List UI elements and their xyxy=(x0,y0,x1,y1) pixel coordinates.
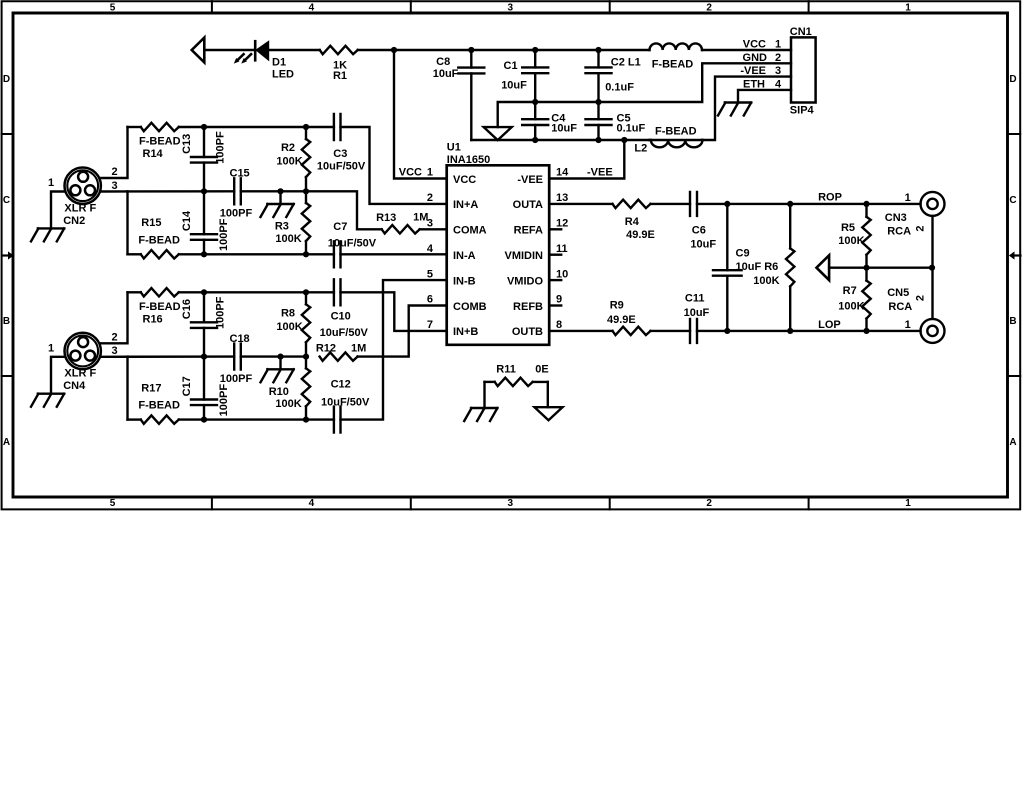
svg-text:LOP: LOP xyxy=(818,319,841,331)
svg-text:10uF R6: 10uF R6 xyxy=(736,261,779,273)
svg-text:100K: 100K xyxy=(838,235,864,247)
svg-text:100PF: 100PF xyxy=(218,384,230,417)
wire mid row C18 to R8 xyxy=(241,355,306,357)
svg-text:0.1uF: 0.1uF xyxy=(617,123,646,135)
wire CN5 pin 2 xyxy=(931,268,933,319)
op-amp U1 INA1650 body xyxy=(447,142,550,345)
pin stub 9 xyxy=(549,304,561,306)
wire L1 to CN1 pin 1 xyxy=(702,49,791,51)
ground (triangle) GND rail xyxy=(484,127,512,140)
connector CN3 RCA jack xyxy=(885,192,945,238)
svg-text:3: 3 xyxy=(111,345,117,357)
capacitor C12 10uF/50V xyxy=(321,379,370,433)
svg-text:SIP4: SIP4 xyxy=(790,105,815,117)
junction R5 top xyxy=(863,201,869,207)
junction R8 top xyxy=(303,289,309,295)
wire arrow to LED D1 xyxy=(204,49,255,51)
svg-text:C7: C7 xyxy=(333,221,347,233)
svg-text:B: B xyxy=(3,316,10,327)
junction mid ground xyxy=(277,188,283,194)
wire R1 to VCC rail xyxy=(358,49,472,51)
svg-text:C2 L1: C2 L1 xyxy=(611,56,641,68)
svg-text:100PF: 100PF xyxy=(215,296,227,329)
junction C16 top xyxy=(201,289,207,295)
resistor R1 1K xyxy=(320,46,358,82)
svg-text:2: 2 xyxy=(111,166,117,178)
junction C9 top xyxy=(724,201,730,207)
power arrow (left, LED return) xyxy=(192,38,205,63)
junction C13 top xyxy=(201,124,207,130)
svg-text:10uF: 10uF xyxy=(551,123,577,135)
left border arrow marker xyxy=(2,251,14,259)
resistor R6 100K xyxy=(786,204,794,331)
svg-text:100PF: 100PF xyxy=(220,208,253,220)
wire CN4 pin 1 to ground xyxy=(51,357,65,394)
svg-text:C: C xyxy=(1009,195,1016,206)
wire ETH from CN1 pin 4 xyxy=(738,90,791,103)
svg-text:3: 3 xyxy=(775,65,781,77)
svg-text:R9: R9 xyxy=(610,300,624,312)
wire R11 left to ground xyxy=(483,382,485,408)
junction CN3/CN5 pin2 xyxy=(929,265,935,271)
svg-text:-VEE: -VEE xyxy=(740,65,766,77)
svg-text:4: 4 xyxy=(427,243,434,255)
svg-text:2: 2 xyxy=(915,295,927,301)
svg-text:F-BEAD: F-BEAD xyxy=(652,59,694,71)
junction C5 bottom xyxy=(595,137,601,143)
XLR connector CN2 xyxy=(63,168,101,227)
ground (hatched) CN2 xyxy=(31,228,64,241)
svg-text:100PF: 100PF xyxy=(218,218,230,251)
junction C4 bottom xyxy=(532,137,538,143)
svg-text:0.1uF: 0.1uF xyxy=(605,82,634,94)
svg-text:100K: 100K xyxy=(275,233,301,245)
capacitor C11 10uF xyxy=(684,293,710,343)
capacitor C9 10uF xyxy=(713,204,780,331)
svg-text:GND: GND xyxy=(743,52,768,64)
svg-text:0E: 0E xyxy=(535,364,548,376)
svg-text:ETH: ETH xyxy=(743,78,765,90)
capacitor C10 10uF/50V xyxy=(320,279,369,339)
svg-text:1: 1 xyxy=(775,39,781,51)
svg-text:F-BEAD: F-BEAD xyxy=(138,400,180,412)
junction C16 bottom xyxy=(201,354,207,360)
svg-text:C8: C8 xyxy=(436,56,450,68)
capacitor C8 10uF xyxy=(433,50,485,140)
svg-text:C15: C15 xyxy=(230,168,250,180)
svg-text:R5: R5 xyxy=(841,222,855,234)
inductor L1 F-BEAD xyxy=(650,43,702,70)
svg-text:R1: R1 xyxy=(333,70,347,82)
wire C10 to U1 pin 7 IN+B xyxy=(341,292,447,331)
svg-text:R11: R11 xyxy=(496,363,516,375)
junction C9 bottom xyxy=(724,328,730,334)
svg-text:100K: 100K xyxy=(838,301,864,313)
svg-text:1: 1 xyxy=(427,167,433,179)
svg-text:REFB: REFB xyxy=(513,301,543,313)
svg-text:OUTB: OUTB xyxy=(512,326,543,338)
resistor R8 100K xyxy=(276,292,310,356)
wire LED to R1 xyxy=(269,49,320,51)
junction R7 bottom xyxy=(863,328,869,334)
svg-text:R12: R12 xyxy=(316,342,336,354)
svg-text:IN+B: IN+B xyxy=(453,326,478,338)
svg-text:C: C xyxy=(3,195,10,206)
svg-text:D: D xyxy=(1009,74,1016,85)
svg-text:4: 4 xyxy=(309,498,315,509)
wire mid row to R13 xyxy=(306,191,382,229)
capacitor C14 100PF xyxy=(181,191,230,254)
wire R17 to C12 xyxy=(179,418,334,420)
svg-text:C13: C13 xyxy=(181,134,193,154)
wire VCC rail C8-C1-C2 xyxy=(471,49,649,51)
svg-text:2: 2 xyxy=(775,52,781,64)
wire CN4 pin 2 to R16 xyxy=(101,292,128,343)
capacitor C7 10uF/50V xyxy=(328,221,377,267)
wire R16 to C10 xyxy=(179,291,334,293)
inductor L2 F-BEAD xyxy=(634,125,702,154)
junction C2 top xyxy=(595,47,601,53)
svg-text:7: 7 xyxy=(427,319,433,331)
svg-text:2: 2 xyxy=(706,3,712,14)
svg-text:13: 13 xyxy=(556,192,568,204)
svg-text:RCA: RCA xyxy=(887,226,911,238)
svg-text:1: 1 xyxy=(48,177,54,189)
svg-text:-VEE: -VEE xyxy=(517,174,543,186)
ground (hatched) mid row xyxy=(261,191,294,217)
resistor R2 100K xyxy=(276,127,310,191)
wire CN4 pin 3 down to R17 xyxy=(126,357,128,420)
svg-text:1: 1 xyxy=(48,343,54,355)
svg-text:CN2: CN2 xyxy=(63,215,85,227)
junction C1 top xyxy=(532,47,538,53)
wire GND rail xyxy=(498,63,791,127)
svg-text:B: B xyxy=(1009,316,1016,327)
wire R11 right to ground xyxy=(547,382,549,407)
capacitor C1 10uF xyxy=(501,50,548,102)
connector CN5 RCA jack xyxy=(887,287,944,343)
wire R14 to C3 xyxy=(179,126,334,128)
svg-text:C12: C12 xyxy=(331,379,351,391)
svg-text:VMIDIN: VMIDIN xyxy=(505,250,544,262)
wire U1 pin 13 OUTA to R4 xyxy=(549,203,612,205)
svg-text:100K: 100K xyxy=(276,156,302,168)
svg-text:100K: 100K xyxy=(276,321,302,333)
svg-text:A: A xyxy=(1009,437,1016,448)
svg-text:100PF: 100PF xyxy=(215,131,227,164)
svg-text:1: 1 xyxy=(905,192,911,204)
svg-text:100K: 100K xyxy=(275,398,301,410)
svg-text:C18: C18 xyxy=(230,333,250,345)
right border arrow marker xyxy=(1009,251,1021,259)
capacitor C17 100PF xyxy=(181,357,230,420)
svg-text:C3: C3 xyxy=(333,148,347,160)
svg-text:R14: R14 xyxy=(143,148,164,160)
resistor R4 49.9E xyxy=(613,200,655,242)
junction R5/R7 xyxy=(863,265,869,271)
svg-text:4: 4 xyxy=(309,3,315,14)
svg-text:1M: 1M xyxy=(351,342,366,354)
wire U1 pin 8 OUTB to R9 xyxy=(549,330,612,332)
svg-text:11: 11 xyxy=(556,243,568,255)
ferrite bead R14 F-BEAD xyxy=(128,123,181,160)
svg-text:XLR F: XLR F xyxy=(64,368,96,380)
svg-text:CN4: CN4 xyxy=(63,380,86,392)
wire C12 to U1 pin 5 IN-B xyxy=(341,280,447,420)
wire mid row C15 to R2 xyxy=(241,190,306,192)
svg-text:R13: R13 xyxy=(376,212,396,224)
wire CN3 pin 2 xyxy=(931,216,933,268)
capacitor C2 0.1uF xyxy=(586,50,641,102)
wire R15 to C7 xyxy=(179,253,334,255)
wire CN2 pin 3 down to R15 xyxy=(126,191,128,254)
wire CN2 pin 1 to ground xyxy=(51,192,65,229)
resistor R10 100K xyxy=(269,357,310,420)
svg-text:IN+A: IN+A xyxy=(453,199,478,211)
svg-text:INA1650: INA1650 xyxy=(447,154,490,166)
svg-text:3: 3 xyxy=(508,3,514,14)
wire CN2 pin 2 to R14 xyxy=(101,127,128,178)
svg-text:10: 10 xyxy=(556,268,568,280)
svg-text:R3: R3 xyxy=(275,221,289,233)
svg-text:CN3: CN3 xyxy=(885,212,907,224)
junction C14 bottom xyxy=(201,251,207,257)
capacitor C3 10uF/50V xyxy=(317,114,366,173)
svg-text:49.9E: 49.9E xyxy=(626,229,655,241)
svg-text:IN-A: IN-A xyxy=(453,250,476,262)
svg-text:C17: C17 xyxy=(181,376,193,396)
capacitor C16 100PF xyxy=(181,292,227,356)
svg-text:R2: R2 xyxy=(281,142,295,154)
svg-text:C16: C16 xyxy=(181,299,193,319)
ferrite bead R17 F-BEAD xyxy=(128,383,181,424)
svg-text:F-BEAD: F-BEAD xyxy=(139,301,181,313)
svg-text:F-BEAD: F-BEAD xyxy=(655,125,697,137)
ground (hatched) CN4 xyxy=(31,394,64,407)
junction R2 bottom xyxy=(303,188,309,194)
wire C7 to U1 pin 4 IN-A xyxy=(341,253,447,255)
junction R6 top xyxy=(787,201,793,207)
power arrow (mid, VMID) xyxy=(817,255,830,280)
capacitor C5 0.1uF xyxy=(586,102,646,140)
svg-text:C11: C11 xyxy=(685,293,705,305)
svg-text:1: 1 xyxy=(905,498,911,509)
svg-text:C9: C9 xyxy=(736,248,750,260)
junction C13 bottom xyxy=(201,188,207,194)
pin stub 12 xyxy=(549,228,561,230)
svg-text:10uF/50V: 10uF/50V xyxy=(328,238,377,250)
svg-text:2: 2 xyxy=(427,192,433,204)
svg-text:R8: R8 xyxy=(281,307,295,319)
svg-text:2: 2 xyxy=(706,498,712,509)
svg-text:100PF: 100PF xyxy=(220,373,253,385)
svg-text:C14: C14 xyxy=(181,210,193,231)
svg-text:XLR F: XLR F xyxy=(64,202,96,214)
svg-text:100K: 100K xyxy=(753,275,779,287)
svg-text:F-BEAD: F-BEAD xyxy=(138,234,180,246)
svg-text:LED: LED xyxy=(272,69,294,81)
svg-text:CN5: CN5 xyxy=(887,287,909,299)
svg-text:4: 4 xyxy=(775,78,782,90)
wire CN4 pin 3 (mid row) xyxy=(101,355,235,358)
svg-text:L2: L2 xyxy=(634,143,647,155)
svg-text:COMB: COMB xyxy=(453,301,487,313)
ferrite bead R15 F-BEAD xyxy=(128,217,181,258)
junction R6 bottom xyxy=(787,328,793,334)
junction C17 bottom xyxy=(201,417,207,423)
svg-text:1: 1 xyxy=(905,3,911,14)
svg-text:REFA: REFA xyxy=(514,225,543,237)
svg-text:10uF: 10uF xyxy=(684,307,710,319)
wire -VEE rail to U1 pin 14 xyxy=(549,140,624,179)
resistor R3 100K xyxy=(275,191,310,254)
svg-text:CN1: CN1 xyxy=(790,26,812,38)
LED D1 xyxy=(234,41,294,80)
svg-text:R10: R10 xyxy=(269,386,289,398)
resistor R11 0E xyxy=(485,363,549,386)
junction L2 / -VEE to U1 xyxy=(621,137,627,143)
junction VCC/R1 xyxy=(391,47,397,53)
svg-text:10uF/50V: 10uF/50V xyxy=(320,327,369,339)
ground (hatched) ETH xyxy=(718,103,751,116)
junction R10 bottom xyxy=(303,417,309,423)
capacitor C4 10uF xyxy=(522,102,577,140)
wire VCC drop to U1 pin 1 xyxy=(394,50,447,179)
svg-text:VMIDO: VMIDO xyxy=(507,275,544,287)
svg-text:1M: 1M xyxy=(413,211,428,223)
resistor R7 100K xyxy=(838,268,870,331)
svg-text:9: 9 xyxy=(556,294,562,306)
svg-text:R7: R7 xyxy=(843,285,857,297)
junction R3 bottom xyxy=(303,251,309,257)
wire R12 to U1 pin 6 COMB xyxy=(358,306,447,357)
svg-text:10uF/50V: 10uF/50V xyxy=(317,161,366,173)
resistor R5 100K xyxy=(838,204,870,268)
svg-text:OUTA: OUTA xyxy=(513,199,543,211)
wire C6 to CN3 (ROP) xyxy=(697,203,921,205)
capacitor C15 100PF xyxy=(220,168,253,220)
pin stub 10 xyxy=(549,279,561,281)
svg-text:D: D xyxy=(3,74,10,85)
svg-text:8: 8 xyxy=(556,319,562,331)
capacitor C13 100PF xyxy=(181,127,227,191)
junction C4 top xyxy=(532,99,538,105)
pin stub 11 xyxy=(549,253,561,255)
capacitor C6 10uF xyxy=(690,192,716,251)
junction R2 top xyxy=(303,124,309,130)
svg-text:5: 5 xyxy=(110,498,116,509)
svg-text:5: 5 xyxy=(427,268,433,280)
svg-text:VCC: VCC xyxy=(399,167,422,179)
svg-text:12: 12 xyxy=(556,218,568,230)
svg-text:5: 5 xyxy=(110,3,116,14)
svg-text:R17: R17 xyxy=(141,383,161,395)
svg-text:10uF: 10uF xyxy=(690,239,716,251)
svg-text:F-BEAD: F-BEAD xyxy=(139,136,181,148)
svg-text:R15: R15 xyxy=(141,217,161,229)
connector CN1 SIP4 xyxy=(790,26,816,117)
svg-text:R4: R4 xyxy=(625,216,640,228)
svg-text:3: 3 xyxy=(508,498,514,509)
ground (triangle) R11 right xyxy=(535,407,563,420)
svg-text:VCC: VCC xyxy=(453,174,476,186)
svg-text:R16: R16 xyxy=(143,314,163,326)
svg-text:-VEE: -VEE xyxy=(587,167,613,179)
wire R9 to C11 xyxy=(651,330,691,332)
svg-text:RCA: RCA xyxy=(888,301,912,313)
resistor R9 49.9E xyxy=(607,300,650,336)
svg-text:49.9E: 49.9E xyxy=(607,314,636,326)
svg-text:A: A xyxy=(3,437,10,448)
svg-text:10uF/50V: 10uF/50V xyxy=(321,396,370,408)
svg-text:6: 6 xyxy=(427,294,433,306)
ground (hatched) R11 left xyxy=(464,408,497,421)
svg-text:U1: U1 xyxy=(447,142,461,154)
svg-text:C1: C1 xyxy=(504,60,518,72)
ground (hatched) mid row xyxy=(261,357,294,383)
svg-text:2: 2 xyxy=(111,331,117,343)
XLR connector CN4 xyxy=(63,333,101,392)
svg-text:D1: D1 xyxy=(272,57,286,69)
resistor R12 1M xyxy=(316,342,366,360)
wire C3 to U1 pin 2 IN+A xyxy=(341,127,447,204)
wire CN2 pin 3 (mid row) xyxy=(101,190,235,193)
svg-text:COMA: COMA xyxy=(453,225,487,237)
svg-text:3: 3 xyxy=(111,180,117,192)
svg-text:14: 14 xyxy=(556,167,569,179)
junction C5 top xyxy=(595,99,601,105)
wire mid row RCA pin 2 common xyxy=(829,267,932,269)
wire C11 to CN5 (LOP) xyxy=(697,330,921,332)
resistor R13 1M xyxy=(376,211,428,233)
svg-text:ROP: ROP xyxy=(818,192,842,204)
ferrite bead R16 F-BEAD xyxy=(128,288,181,325)
wire R4 to C6 xyxy=(651,203,691,205)
wire -VEE rail xyxy=(471,139,649,141)
svg-text:IN-B: IN-B xyxy=(453,275,476,287)
svg-text:1: 1 xyxy=(905,319,911,331)
svg-text:VCC: VCC xyxy=(743,39,766,51)
capacitor C18 100PF xyxy=(220,333,253,385)
wire L2 to CN1 pin 3 xyxy=(702,77,791,140)
svg-text:C10: C10 xyxy=(331,311,351,323)
wire R13 to U1 pin 3 COMA xyxy=(420,228,447,230)
svg-text:10uF: 10uF xyxy=(501,79,527,91)
junction R8 bottom xyxy=(303,354,309,360)
svg-text:C6: C6 xyxy=(692,224,706,236)
junction C8 xyxy=(468,47,474,53)
svg-text:2: 2 xyxy=(915,225,927,231)
junction mid ground xyxy=(277,354,283,360)
svg-text:10uF: 10uF xyxy=(433,68,459,80)
